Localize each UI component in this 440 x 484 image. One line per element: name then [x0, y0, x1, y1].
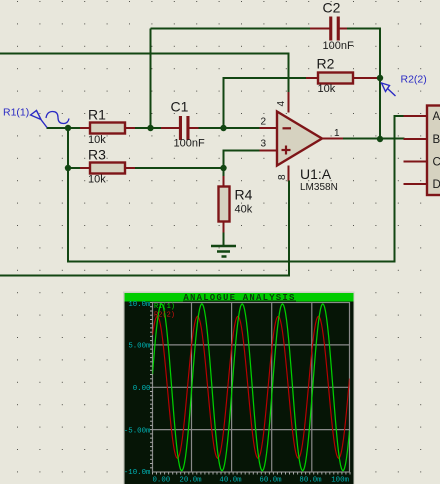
svg-text:-10.0m: -10.0m [124, 469, 151, 477]
svg-text:LM358N: LM358N [300, 182, 338, 193]
svg-text:10k: 10k [88, 174, 106, 186]
svg-text:R2(2): R2(2) [401, 74, 427, 86]
svg-text:-5.00m: -5.00m [124, 427, 151, 435]
svg-text:100nF: 100nF [323, 40, 354, 52]
svg-text:D: D [433, 179, 440, 191]
svg-text:1: 1 [334, 128, 340, 139]
svg-text:40.0m: 40.0m [219, 477, 242, 484]
svg-text:0.00: 0.00 [133, 385, 151, 393]
svg-text:100nF: 100nF [174, 138, 205, 150]
svg-text:A: A [433, 111, 440, 123]
svg-text:C: C [433, 157, 440, 169]
svg-text:10k: 10k [88, 134, 106, 146]
svg-text:C1: C1 [171, 99, 189, 115]
svg-text:C2: C2 [323, 0, 341, 16]
svg-text:8: 8 [277, 174, 288, 180]
svg-text:20.0m: 20.0m [179, 477, 202, 484]
svg-text:60.0m: 60.0m [259, 477, 282, 484]
svg-text:80.0m: 80.0m [299, 477, 322, 484]
svg-text:5.00m: 5.00m [128, 343, 151, 351]
svg-text:B: B [433, 134, 440, 146]
svg-text:R3: R3 [88, 147, 106, 163]
svg-text:10.0m: 10.0m [128, 301, 151, 309]
svg-text:10k: 10k [318, 83, 336, 95]
svg-text:U1:A: U1:A [300, 166, 332, 182]
svg-text:3: 3 [260, 139, 266, 150]
svg-text:R1(1): R1(1) [154, 303, 175, 311]
svg-text:100m: 100m [331, 477, 349, 484]
svg-text:2: 2 [260, 117, 266, 128]
svg-text:4: 4 [276, 101, 287, 107]
svg-text:0.00: 0.00 [153, 477, 171, 484]
svg-text:R2(2): R2(2) [154, 312, 175, 320]
svg-text:R2: R2 [317, 56, 335, 72]
svg-text:40k: 40k [235, 204, 253, 216]
svg-text:R1(1): R1(1) [3, 107, 29, 119]
svg-text:R1: R1 [88, 107, 106, 123]
svg-text:R4: R4 [235, 187, 253, 203]
